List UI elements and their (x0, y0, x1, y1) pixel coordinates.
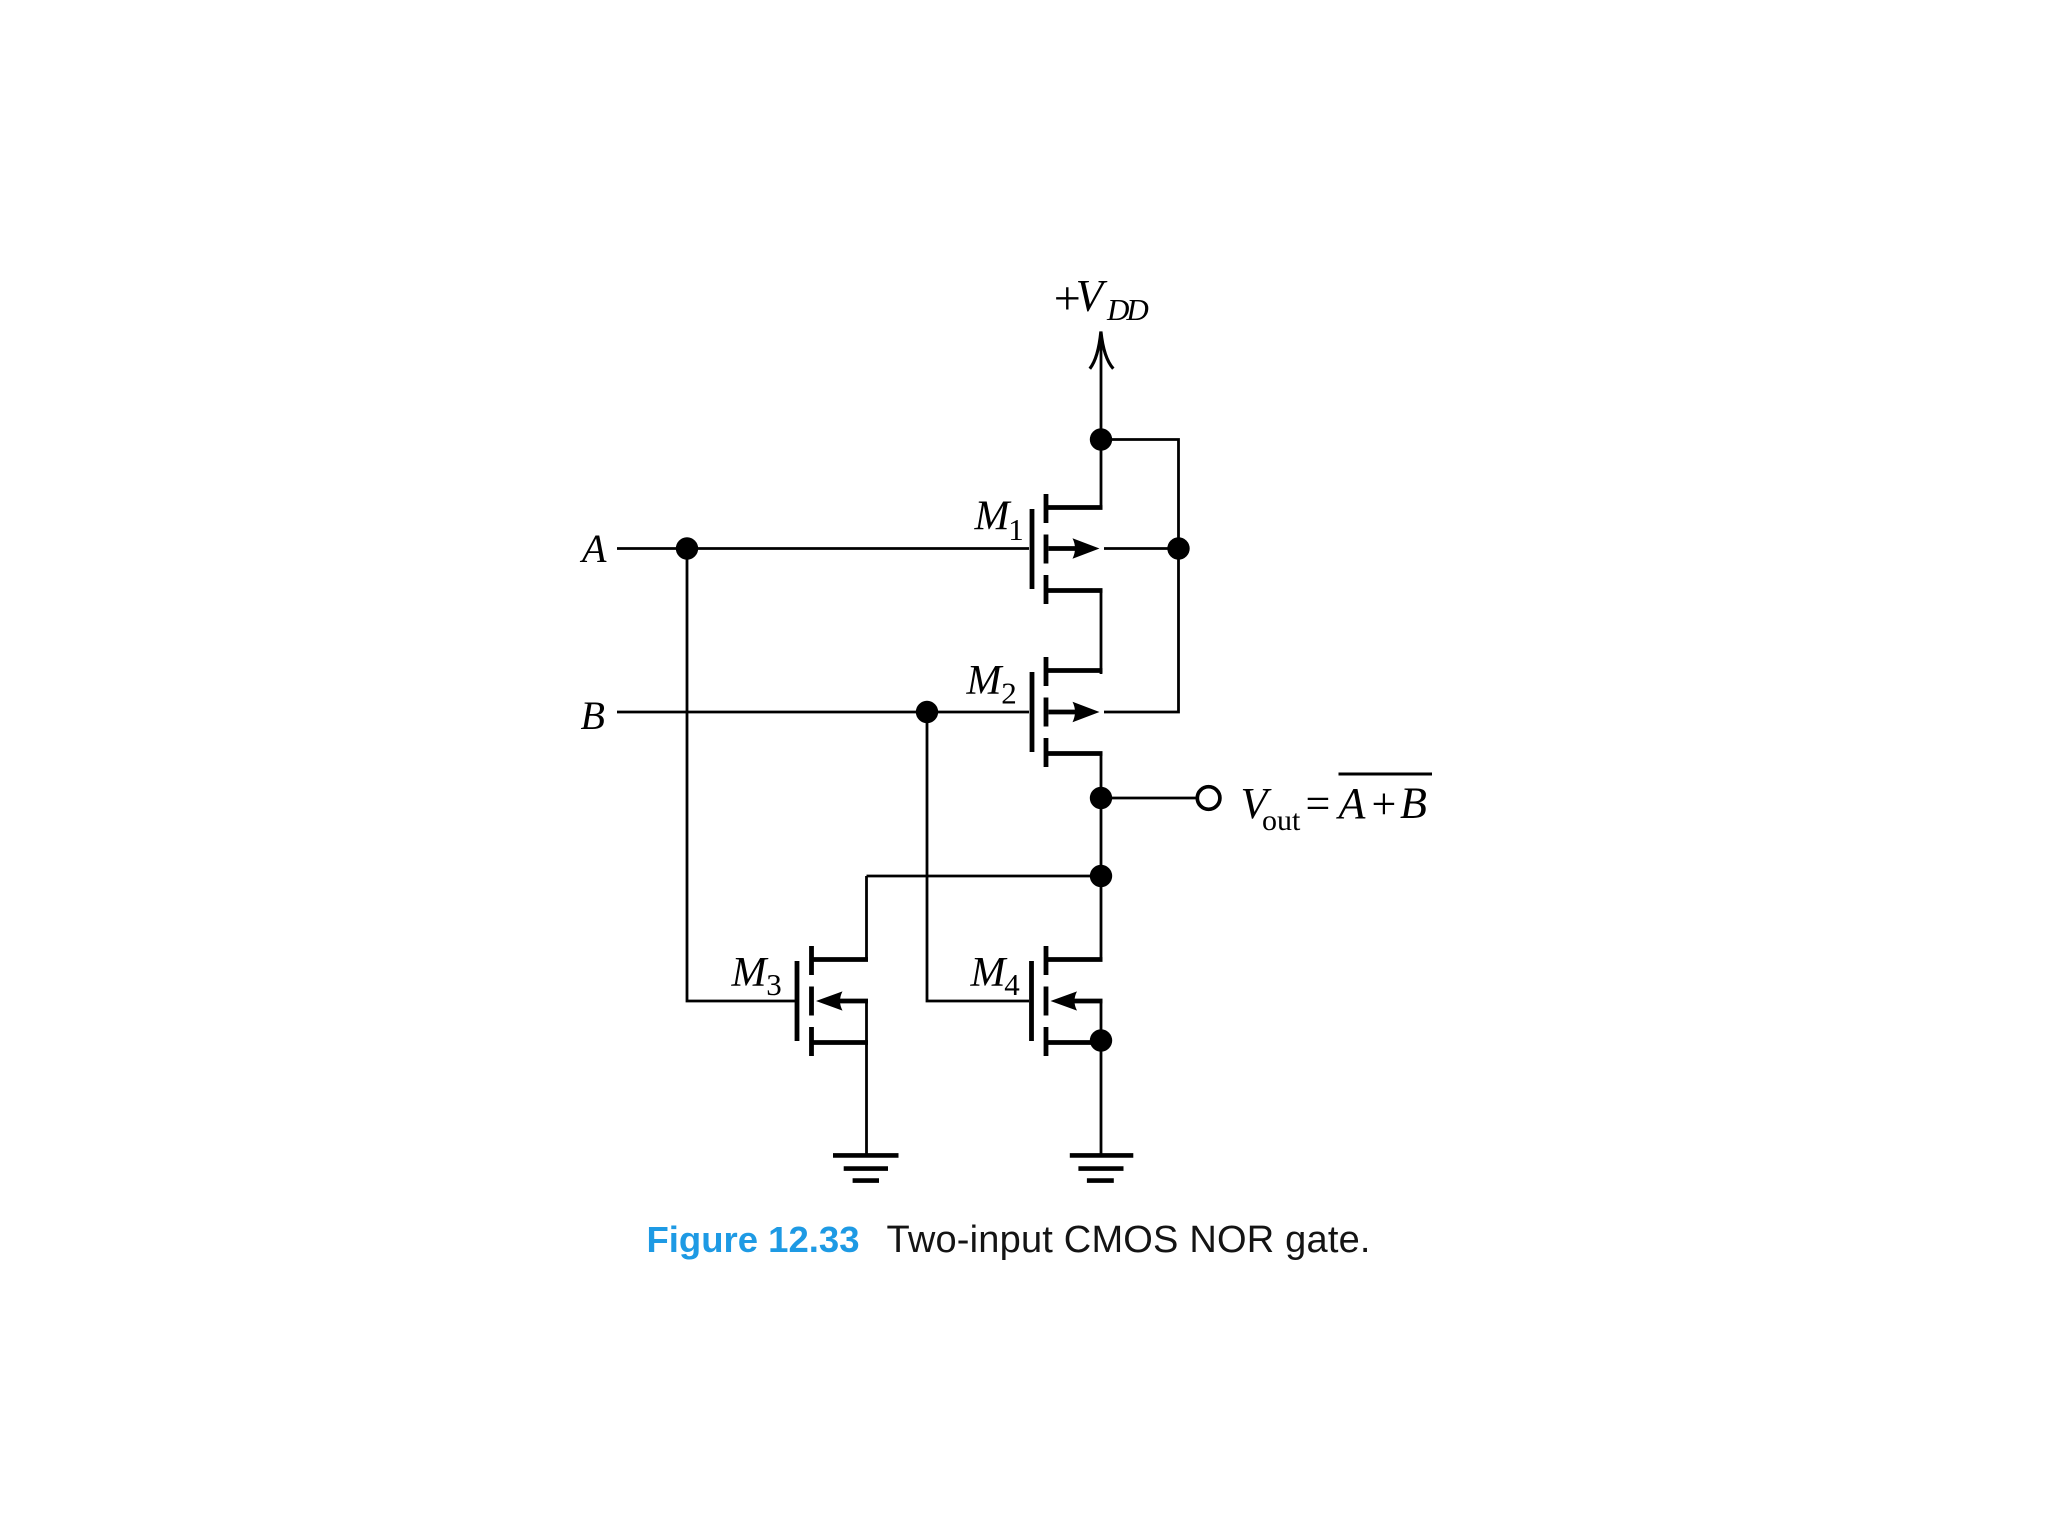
svg-text:V: V (1076, 271, 1108, 321)
svg-text:Figure 12.33: Figure 12.33 (647, 1219, 860, 1260)
svg-text:M: M (966, 658, 1004, 704)
svg-text:4: 4 (1004, 967, 1020, 1002)
svg-text:2: 2 (1001, 676, 1017, 711)
svg-text:M: M (731, 950, 769, 996)
svg-text:=: = (1306, 779, 1331, 828)
svg-text:B: B (1400, 779, 1427, 828)
svg-text:M: M (970, 950, 1008, 996)
svg-text:out: out (1262, 804, 1301, 837)
svg-text:1: 1 (1008, 512, 1024, 547)
svg-text:B: B (581, 693, 605, 738)
svg-text:A: A (1336, 779, 1367, 828)
svg-text:DD: DD (1106, 292, 1148, 327)
svg-text:3: 3 (766, 967, 782, 1002)
svg-text:Two-input CMOS NOR gate.: Two-input CMOS NOR gate. (887, 1219, 1371, 1261)
svg-text:M: M (974, 494, 1012, 540)
svg-text:+: + (1372, 780, 1397, 829)
svg-text:A: A (579, 526, 607, 571)
